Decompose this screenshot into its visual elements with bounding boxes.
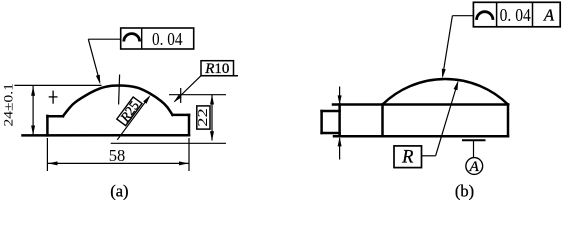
radius callout R in box (b) (394, 81, 458, 168)
leader from frame to dome surface (a) (88, 39, 120, 84)
svg-text:(a): (a) (110, 181, 128, 200)
datum feature symbol A (b) (462, 140, 486, 175)
cross mark (a) (49, 91, 58, 104)
dimension 24±0.1 (a) (2, 83, 102, 135)
centerline tick at dome apex (a) (119, 75, 120, 105)
svg-text:0. 04: 0. 04 (500, 5, 531, 25)
svg-text:R: R (401, 147, 413, 167)
feature control frame (b): profile symbol | 0.04 | A (473, 2, 560, 27)
svg-text:0. 04: 0. 04 (152, 29, 183, 49)
svg-text:A: A (469, 159, 480, 175)
dimension 22 with boxed text (a) (111, 88, 226, 143)
svg-text:24±0.1: 24±0.1 (2, 83, 16, 127)
svg-text:(b): (b) (455, 181, 474, 200)
svg-text:22: 22 (196, 108, 211, 127)
thickness arrows (b) (338, 87, 342, 160)
svg-text:R10: R10 (204, 61, 229, 77)
radius callout R25 in rotated box (a) (116, 95, 150, 140)
svg-text:58: 58 (109, 146, 126, 165)
radius callout R10 (a) (174, 61, 239, 103)
dimension 58 (a) (47, 138, 189, 171)
feature control frame (a): profile symbol | 0.04 (121, 28, 194, 49)
leader from frame to dome apex (b) (442, 16, 474, 79)
part outline (a): base with shoulders and domed top (23, 86, 190, 136)
svg-text:A: A (543, 6, 555, 25)
part outline (b): stepped plate with dome (322, 79, 508, 136)
